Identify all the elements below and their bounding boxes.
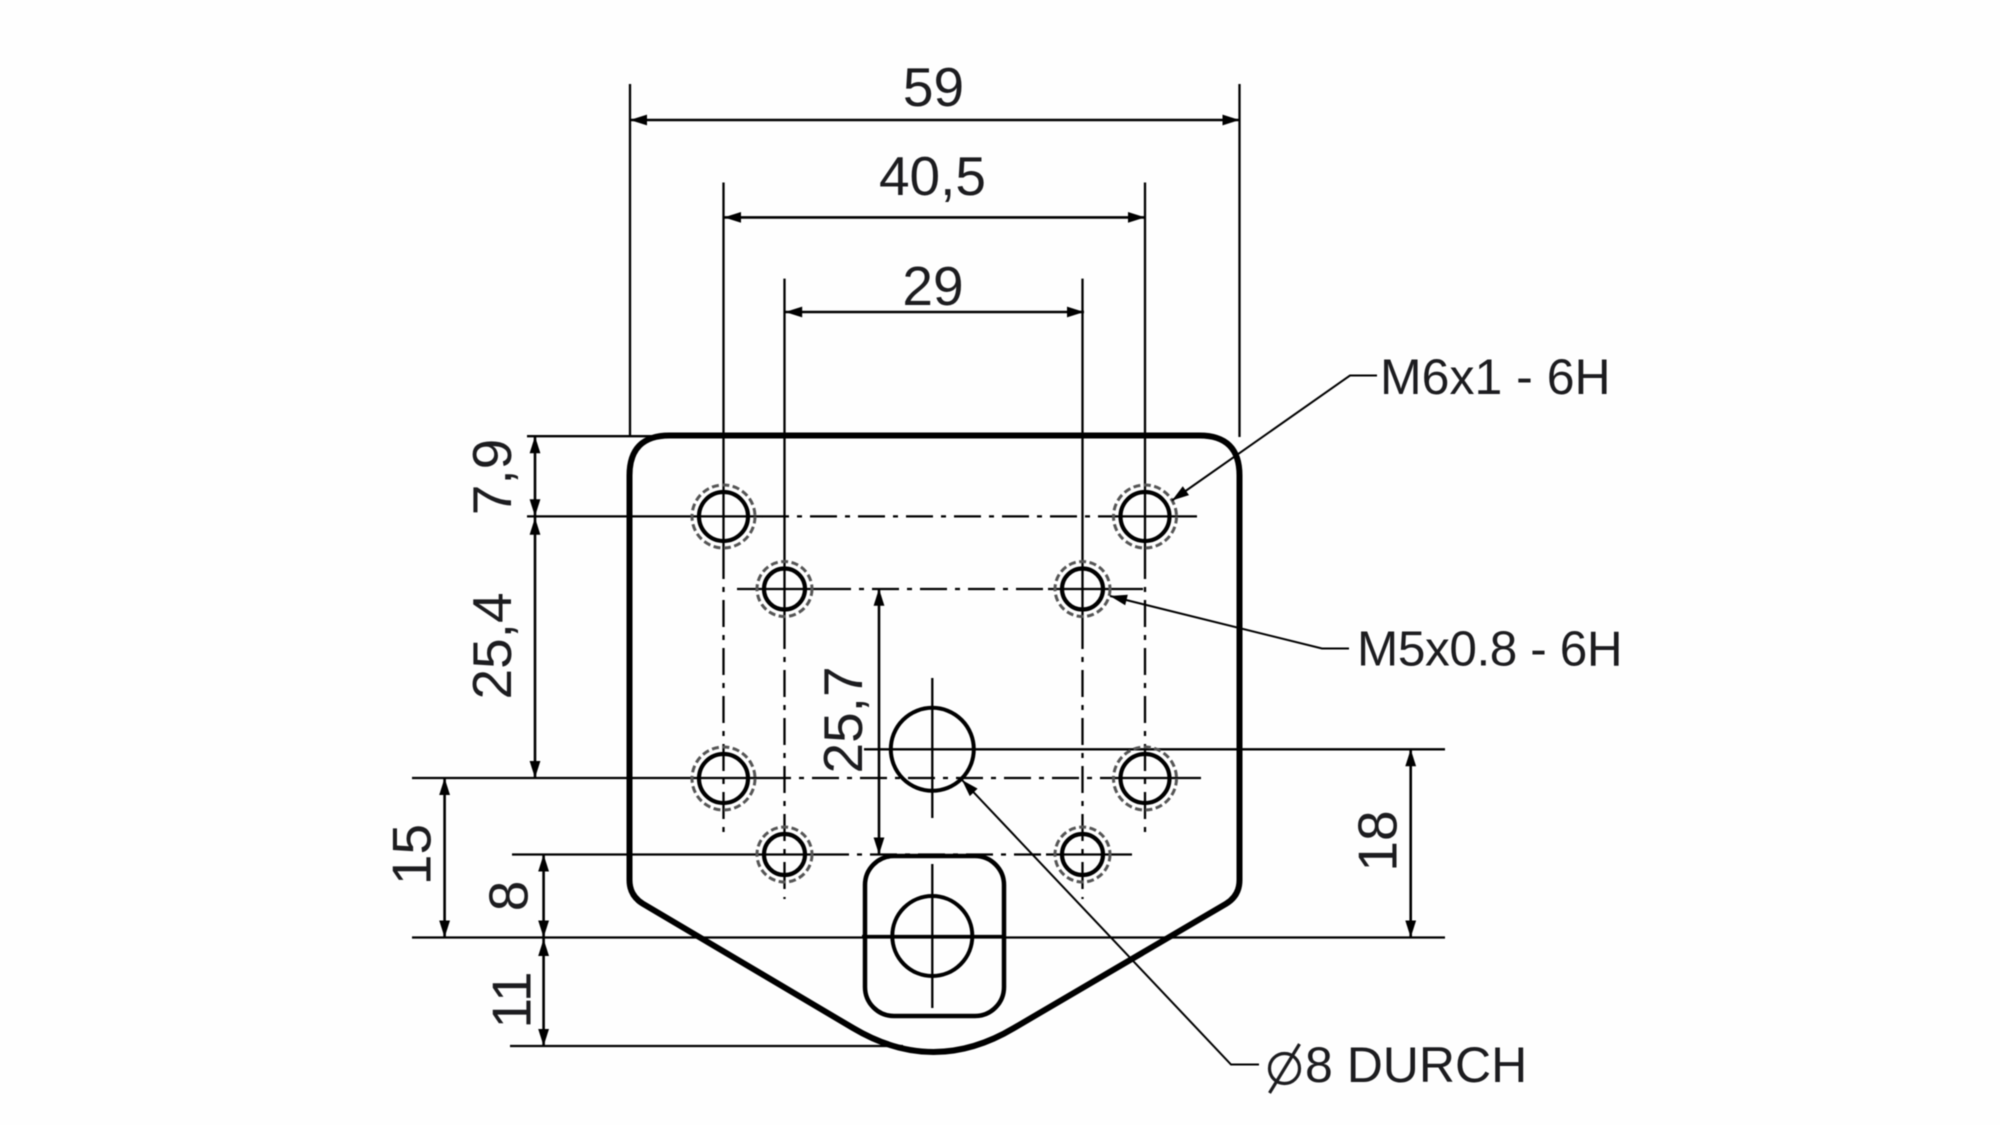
dim 8 line: [542, 855, 545, 938]
hole M5 lower-left thread circle: [757, 827, 812, 882]
svg-text:8: 8: [478, 881, 540, 912]
svg-text:7,9: 7,9: [461, 439, 523, 515]
diameter symbol: [1270, 1044, 1300, 1093]
hole M6 top-right thread circle: [1114, 485, 1177, 548]
hole M5 upper-left hole: [764, 569, 805, 610]
centerline col1: [722, 183, 724, 553]
centerline col3: [1081, 279, 1083, 622]
hole M6 bottom-right hole: [1121, 754, 1170, 803]
dim 40,5 line: [724, 216, 1145, 219]
svg-text:40,5: 40,5: [879, 145, 986, 207]
hole M5 lower-right hole: [1062, 834, 1103, 875]
dim 59 line: [630, 119, 1240, 122]
centerline row2: [737, 588, 824, 590]
dim 25,4 line: [534, 516, 537, 778]
plate outline: [630, 436, 1240, 1053]
svg-text:8 DURCH: 8 DURCH: [1305, 1037, 1527, 1093]
hole M5 lower-right thread circle: [1055, 827, 1110, 882]
leader D8: [962, 780, 1259, 1065]
centerline row4: [512, 853, 822, 855]
hole M6 bottom-left hole: [699, 754, 748, 803]
hole M6 bottom-right thread circle: [1114, 747, 1177, 810]
svg-text:M6x1 - 6H: M6x1 - 6H: [1380, 349, 1611, 405]
svg-text:25,4: 25,4: [461, 592, 523, 699]
leader M6: [1172, 376, 1377, 501]
leader M5: [1110, 596, 1349, 649]
centerline boss horizontal: [862, 935, 1004, 937]
svg-text:29: 29: [902, 255, 963, 317]
hole M5 upper-right thread circle: [1055, 562, 1110, 617]
centerline col2: [783, 279, 785, 622]
boss rounded square: [865, 856, 1004, 1016]
dim 11 line: [542, 938, 545, 1047]
hole M5 lower-left hole: [764, 834, 805, 875]
svg-text:11: 11: [481, 971, 543, 1028]
dim 29 line: [785, 311, 1084, 314]
dim 18 line: [1409, 749, 1412, 937]
centerline big hole vertical: [931, 678, 933, 818]
svg-text:15: 15: [381, 824, 443, 885]
hole M5 upper-left thread circle: [757, 562, 812, 617]
dim 15 line: [443, 778, 446, 938]
dim 7,9 line: [534, 436, 537, 516]
hole M6 bottom-left thread circle: [692, 747, 755, 810]
reference line y1046 bottom: [510, 1045, 903, 1047]
centerline boss vertical: [931, 864, 933, 1008]
centerline big hole horizontal / 18 reference: [864, 748, 1445, 750]
dim 7,9 extension line top: [527, 435, 670, 437]
svg-text:59: 59: [903, 56, 964, 118]
dim 25,7 line: [878, 589, 881, 855]
hole M6 top-left thread circle: [692, 485, 755, 548]
hole M6 top-left hole: [699, 492, 748, 541]
reference line y938: [412, 936, 1445, 938]
svg-text:M5x0.8 - 6H: M5x0.8 - 6H: [1357, 622, 1622, 677]
boss bore circle: [892, 896, 972, 976]
svg-text:18: 18: [1347, 810, 1409, 871]
hole M6 top-right hole: [1121, 492, 1170, 541]
svg-text:25,7: 25,7: [812, 666, 874, 773]
dim 59 extension lines: [629, 84, 631, 437]
centerline row1: [527, 515, 762, 517]
hole M5 upper-right hole: [1062, 569, 1103, 610]
centerline col4: [1144, 183, 1146, 553]
centerline row3: [412, 777, 764, 779]
center hole D8: [891, 708, 974, 791]
